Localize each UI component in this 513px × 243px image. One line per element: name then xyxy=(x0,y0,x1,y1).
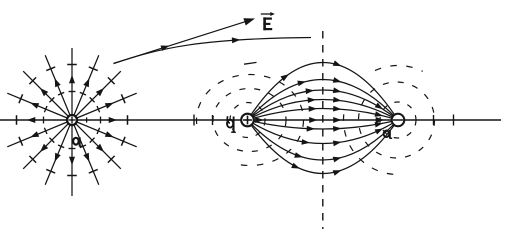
arrowheads on axis between charges xyxy=(255,117,384,123)
E vector straight tangent line xyxy=(114,20,250,63)
vertical dashed symmetry line xyxy=(322,31,324,229)
dipole field line arcs between charges xyxy=(248,63,399,174)
big arrowhead tip of E vector xyxy=(243,18,255,25)
left point charge circle with plus xyxy=(67,115,77,125)
label E with vector bar xyxy=(261,12,275,30)
label q of left point charge xyxy=(73,137,82,146)
label q of right dipole charge xyxy=(384,130,393,139)
label q of left dipole charge xyxy=(227,116,236,132)
field line curve for E tangent illustration xyxy=(114,38,312,64)
right dipole charge circle (axis passes through) xyxy=(392,114,405,127)
equipotential dashed rings around left dipole charge xyxy=(196,62,303,165)
equipotential dashed rings around right dipole charge xyxy=(343,65,434,174)
arrowheads on radial rays (outward) xyxy=(27,75,117,165)
explicit equipotential ticks on axis near dipole xyxy=(194,115,454,126)
arrowhead on field line curve xyxy=(232,37,241,43)
field lines: 16 radial rays of left point charge xyxy=(7,48,136,196)
axis: horizontal line through both charge systems xyxy=(0,119,501,121)
small tick on axis right of left charge xyxy=(86,117,88,122)
equipotential tick circle r=28 around left charge xyxy=(44,92,101,149)
small arrowhead on tangent line xyxy=(161,46,170,52)
arrowheads on dipole arcs (two mid columns + convergence at right charge) xyxy=(281,60,384,175)
left dipole charge circle with plus xyxy=(241,114,254,127)
equipotential tick circle r=55.5 around left charge xyxy=(17,65,128,176)
